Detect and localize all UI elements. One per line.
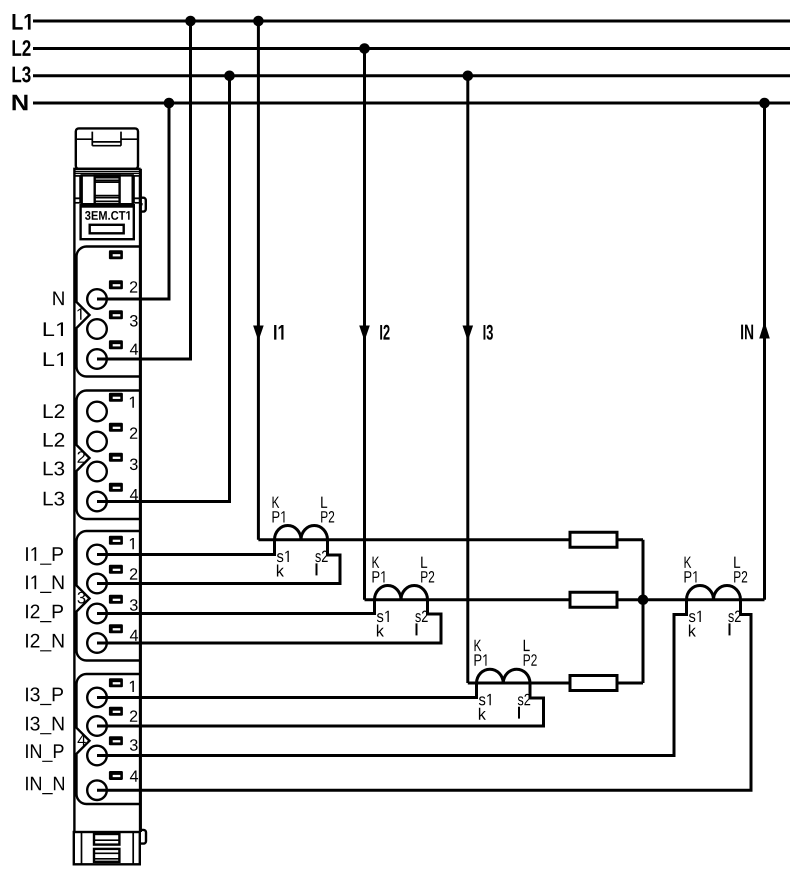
pin label K of CT3 [475, 640, 482, 651]
pin label L of CT4 [734, 557, 740, 568]
module locking slide parts [74, 176, 139, 203]
terminal contact slot group 1 position 3 [109, 310, 123, 319]
terminal contact slot group 1 position 1 [109, 250, 123, 259]
pin label s1 of CT4 [689, 611, 701, 622]
transformer CT4 primary winding humps [687, 586, 741, 600]
pin number 1 of group 3 [130, 538, 134, 549]
wire L1 bus to module terminal 4 (L1) [97, 21, 191, 359]
terminal circle group 4 pin 3 [87, 746, 107, 766]
pin label P2 of CT4 [734, 571, 747, 583]
terminal circle group 2 pin 3 [87, 462, 107, 482]
pin label P1 of CT3 [475, 654, 487, 665]
terminal contact slot group 1 position 2 [109, 280, 123, 289]
terminal contact slot group 3 position 3 [109, 595, 123, 604]
pin label s1 of CT2 [377, 611, 389, 622]
terminal circle group 1 pin 3 [87, 319, 107, 339]
net label L3 [13, 66, 31, 82]
module body right edge [139, 169, 142, 832]
terminal contact slot group 3 position 2 [109, 565, 123, 574]
transformer CT2 primary winding humps [375, 586, 428, 600]
terminal contact slot group 3 position 4 [109, 624, 123, 633]
signal label I3_P [26, 687, 63, 705]
signal label L1 [44, 322, 63, 336]
signal label L3 [44, 492, 64, 506]
pin label s2 of CT3 [518, 694, 530, 706]
pin number 2 of group 2 [130, 427, 137, 438]
signal label L2 [44, 433, 64, 447]
arrow I2 current direction [359, 326, 370, 342]
pin number 4 of group 2 [130, 489, 138, 500]
pin label k of CT2 [377, 625, 384, 637]
transformer CT2 primary conductor [365, 598, 571, 601]
terminal contact slot group 4 position 4 [109, 771, 123, 780]
signal label I3_N [26, 717, 63, 735]
arrow I3 current direction [463, 326, 474, 342]
terminal circle group 3 pin 4 [87, 633, 107, 653]
pin label P2 of CT2 [421, 571, 434, 583]
net label N [13, 95, 28, 111]
wire CT4 secondary s2 to module [97, 600, 751, 790]
terminal circle group 2 pin 1 [87, 402, 107, 422]
net label L2 [13, 40, 31, 56]
terminal contact slot group 4 position 3 [109, 736, 123, 745]
transformer CT4 primary conductor [643, 598, 765, 601]
module bottom DIN-rail tab right [140, 830, 146, 844]
pin number 4 of group 3 [130, 630, 138, 641]
transformer CT1 primary conductor [258, 538, 570, 541]
pin label P1 of CT2 [373, 571, 385, 582]
wire CT1 secondary s2 to module [97, 540, 340, 584]
module top band [74, 171, 140, 173]
terminal circle group 3 pin 1 [87, 545, 107, 565]
label IN [741, 325, 753, 340]
transformer CT3 primary conductor [468, 682, 570, 685]
pin label s2 of CT4 [728, 611, 740, 623]
wire N bus line [33, 102, 790, 105]
pin label l of CT3 [518, 707, 520, 719]
load resistor phase L1 [570, 532, 617, 547]
signal label I2_P [26, 605, 63, 623]
terminal circle group 1 pin 2 [87, 289, 107, 309]
terminal circle group 2 pin 4 [87, 492, 107, 512]
wire CT1 secondary s1 to module [97, 540, 275, 555]
wire L3 bus line [33, 74, 790, 77]
module label window [90, 225, 124, 234]
pin number 3 of group 3 [130, 599, 138, 611]
signal label L3 [44, 462, 64, 476]
junction N drop to module [164, 98, 175, 109]
pin label L of CT1 [321, 497, 327, 508]
wire load L2 to star point bus [617, 598, 643, 601]
junction L1 to CT1 primary [253, 16, 264, 27]
pin label k of CT4 [689, 625, 696, 637]
wire CT2 secondary s1 to module [97, 600, 375, 614]
terminal contact slot group 2 position 3 [109, 453, 123, 462]
junction L1 drop to module [185, 16, 196, 27]
net label L1 [13, 14, 31, 30]
pin label P1 of CT4 [685, 571, 697, 582]
terminal contact slot group 4 position 2 [109, 707, 123, 716]
pin label P2 of CT1 [321, 511, 334, 523]
label I2 [380, 325, 389, 340]
group number 4 marker [78, 734, 86, 745]
transformer CT1 primary winding humps [275, 526, 328, 540]
terminal group 3 box [77, 531, 141, 661]
pin number 3 of group 4 [130, 739, 138, 751]
wire load L1 to star point bus [617, 538, 643, 541]
terminal circle group 4 pin 4 [87, 780, 107, 800]
signal label N [53, 292, 64, 306]
wire L2 bus line [33, 47, 790, 50]
junction L3 drop to module [224, 71, 235, 82]
label I1 [274, 325, 283, 340]
terminal contact slot group 2 position 4 [109, 483, 123, 492]
pin number 2 of group 4 [130, 710, 137, 721]
pin number 1 of group 4 [130, 681, 134, 692]
wire N bus to module terminal 2 (N) [97, 103, 169, 299]
signal label I1_P [26, 547, 63, 565]
pin number 2 of group 1 [130, 281, 137, 292]
pin label K of CT2 [373, 557, 380, 568]
pin label K of CT4 [685, 557, 692, 568]
junction neutral star point [638, 594, 649, 605]
terminal contact slot group 1 position 4 [109, 340, 123, 349]
wire CT2 secondary s2 to module [97, 600, 441, 643]
junction L3 to CT3 primary [463, 71, 474, 82]
pin label s2 of CT2 [415, 611, 427, 623]
terminal contact slot group 2 position 2 [109, 423, 123, 432]
terminal contact slot group 4 position 1 [109, 678, 123, 687]
signal label I2_N [26, 634, 63, 652]
pin label s1 of CT3 [479, 694, 491, 706]
pin number 4 of group 1 [130, 344, 138, 355]
pin number 3 of group 2 [130, 459, 138, 471]
terminal circle group 1 pin 4 [87, 349, 107, 369]
pin label P2 of CT3 [524, 654, 537, 666]
label I3 [484, 325, 493, 340]
pin label K of CT1 [273, 497, 280, 508]
terminal circle group 4 pin 1 [87, 688, 107, 708]
group number 1 marker [78, 308, 82, 319]
load resistor phase L2 [570, 592, 617, 607]
module bottom latch [74, 832, 140, 864]
pin number 3 of group 1 [130, 315, 138, 327]
wire I2 phase conductor drop [363, 49, 366, 600]
wire neutral star-point bus [642, 540, 645, 683]
pin label s1 of CT1 [277, 551, 289, 562]
signal label I1_N [26, 576, 63, 594]
module label box [80, 204, 134, 239]
wire IN neutral return riser [763, 103, 766, 600]
pin number 4 of group 4 [130, 771, 138, 782]
group number 2 marker [78, 451, 86, 463]
terminal circle group 3 pin 2 [87, 574, 107, 594]
pin number 2 of group 3 [130, 568, 137, 579]
pin number 1 of group 2 [130, 397, 134, 408]
pin label L of CT2 [421, 557, 427, 568]
wire L3 bus to module terminal 4 (L3) [97, 76, 230, 502]
pin label L of CT3 [524, 640, 530, 651]
pin label s2 of CT1 [315, 551, 327, 563]
terminal circle group 2 pin 2 [87, 432, 107, 452]
transformer CT3 primary winding humps [477, 669, 531, 683]
pin label P1 of CT1 [273, 511, 285, 522]
wire load L3 to star point bus [617, 682, 643, 685]
terminal group 4 box [77, 674, 141, 804]
terminal contact slot group 3 position 1 [109, 536, 123, 545]
junction N to CT4 primary [759, 98, 770, 109]
pin label k of CT1 [277, 565, 284, 577]
pin label l of CT2 [416, 623, 418, 635]
wire CT3 secondary s2 to module [97, 683, 544, 726]
signal label IN_N [26, 777, 64, 795]
module DIN-rail tab right [140, 198, 146, 212]
wire I3 phase conductor drop [466, 76, 469, 683]
pin label l of CT1 [316, 563, 318, 575]
module 3EM.CT1 top latch [76, 128, 138, 168]
module body outline [74, 169, 140, 832]
terminal circle group 3 pin 3 [87, 604, 107, 624]
signal label L1 [44, 352, 63, 366]
signal label L2 [44, 404, 64, 418]
signal label IN_P [26, 744, 63, 762]
load resistor phase L3 [570, 676, 617, 691]
label 3EM.CT1 [85, 211, 130, 220]
junction L2 to CT2 primary [359, 43, 370, 54]
wire CT4 secondary s1 to module [97, 600, 687, 756]
arrow IN current direction [759, 322, 770, 339]
arrow I1 current direction [253, 326, 264, 342]
wire I1 phase conductor drop [257, 21, 260, 540]
terminal contact slot group 2 position 1 [109, 393, 123, 402]
module center block [82, 175, 133, 204]
terminal group 2 box [77, 391, 141, 520]
terminal group 1 box [77, 247, 141, 377]
pin label l of CT4 [729, 623, 731, 635]
wire L1 bus line [33, 20, 790, 23]
group number 3 marker [78, 592, 86, 604]
terminal circle group 4 pin 2 [87, 716, 107, 736]
pin label k of CT3 [479, 708, 486, 720]
wire CT3 secondary s1 to module [97, 683, 477, 698]
